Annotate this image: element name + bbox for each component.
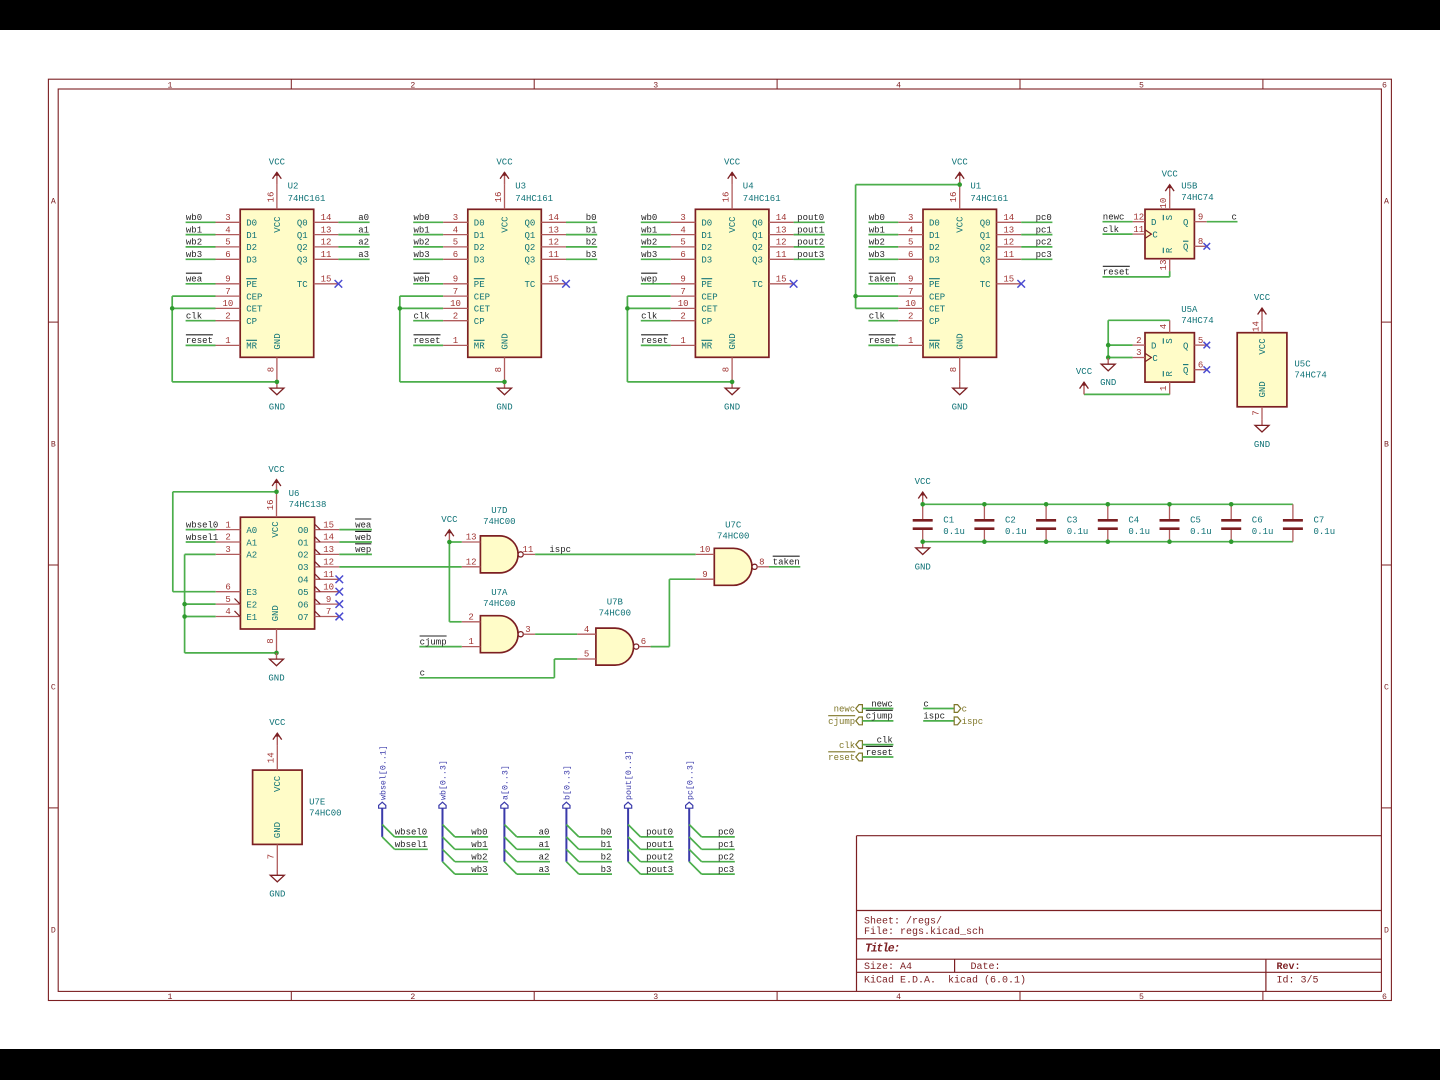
junction (U6 E2): [182, 602, 187, 607]
svg-text:5: 5: [225, 238, 230, 248]
svg-text:C6: C6: [1252, 516, 1263, 526]
svg-text:wb1: wb1: [414, 225, 430, 235]
svg-text:D2: D2: [474, 243, 485, 253]
svg-text:2: 2: [225, 311, 230, 321]
svg-text:2: 2: [468, 612, 473, 622]
svg-text:1: 1: [225, 336, 230, 346]
wire CEP/CET tie to GND (U3): [400, 296, 505, 382]
no-connect U6 O7: [336, 613, 344, 621]
svg-text:4: 4: [584, 625, 589, 635]
wire wb1 to U4 D1: [641, 234, 671, 236]
svg-text:74HC74: 74HC74: [1181, 316, 1213, 326]
wire CEP/CET tie to GND (U4): [627, 296, 732, 382]
svg-text:B: B: [1384, 441, 1389, 450]
net label reset (U3): [414, 335, 441, 346]
svg-text:a1: a1: [539, 840, 550, 850]
svg-text:pout3: pout3: [646, 865, 673, 875]
net label wb1: [414, 225, 430, 235]
svg-text:VCC: VCC: [728, 216, 738, 233]
wire clk to U5B C: [1103, 233, 1133, 235]
wire newc (hier): [862, 708, 893, 710]
svg-text:wbsel1: wbsel1: [395, 840, 427, 850]
net label a3 (port): [539, 865, 550, 875]
svg-text:O2: O2: [298, 551, 309, 561]
svg-text:Rev:: Rev:: [1277, 962, 1301, 973]
net label wbsel0 (port): [395, 828, 427, 838]
wire CEP/CET tie to VCC (U1): [856, 185, 960, 309]
hierarchical label reset: [828, 752, 862, 763]
svg-text:Q0: Q0: [297, 219, 308, 229]
bus entry b0: [566, 825, 578, 837]
power VCC (U7E): [269, 718, 286, 745]
svg-text:7: 7: [326, 607, 331, 617]
svg-text:a0: a0: [358, 213, 369, 223]
svg-text:VCC: VCC: [269, 718, 286, 728]
svg-text:E1: E1: [246, 613, 257, 623]
net label wb0 (port): [471, 828, 487, 838]
net label b1 (port): [601, 840, 612, 850]
svg-text:0.1u: 0.1u: [943, 527, 965, 537]
kicad version text: [864, 974, 1026, 986]
wire GND rail (cap bank): [923, 541, 1293, 543]
svg-text:2: 2: [680, 311, 685, 321]
wire U1 Q1 to pc1: [1021, 234, 1052, 236]
svg-text:6: 6: [225, 582, 230, 592]
svg-text:0.1u: 0.1u: [1067, 527, 1089, 537]
svg-text:wb0: wb0: [869, 213, 885, 223]
hierarchical bus label wbsel[0..1]: [378, 745, 388, 808]
svg-text:VCC: VCC: [1258, 338, 1268, 355]
svg-text:GND: GND: [271, 605, 281, 621]
svg-text:a0: a0: [539, 828, 550, 838]
svg-text:5: 5: [908, 238, 913, 248]
hierarchical label c (right): [954, 705, 967, 715]
wire clk (hier): [862, 744, 893, 746]
net label pc3: [1036, 250, 1052, 260]
svg-text:D0: D0: [246, 219, 257, 229]
svg-text:14: 14: [321, 213, 332, 223]
sheet name text: [864, 915, 942, 927]
svg-text:D1: D1: [929, 231, 940, 241]
svg-text:8: 8: [494, 367, 504, 372]
svg-text:12: 12: [1133, 212, 1144, 222]
junction (U5A C): [1106, 355, 1111, 360]
wire U2 Q1 to a1: [338, 234, 369, 236]
bus entry pc3: [689, 862, 701, 874]
bus a[0..3]: [503, 808, 505, 862]
net label taken: [869, 273, 896, 284]
wire wb0 to U1 D0: [868, 221, 898, 223]
svg-text:C2: C2: [1005, 516, 1016, 526]
svg-text:CP: CP: [246, 317, 257, 327]
junction (U6 GND): [274, 651, 279, 656]
svg-text:Id: 3/5: Id: 3/5: [1277, 974, 1319, 986]
svg-text:Date:: Date:: [971, 962, 1001, 973]
svg-text:PE: PE: [929, 280, 940, 290]
svg-text:pout2: pout2: [797, 238, 824, 248]
wire wb1 stub: [455, 848, 488, 850]
wire U3 Q2 to b2: [566, 246, 597, 248]
svg-text:8: 8: [266, 638, 276, 643]
net label c (hier right): [923, 699, 928, 709]
svg-text:pout1: pout1: [797, 225, 824, 235]
svg-text:5: 5: [1139, 82, 1144, 91]
power VCC (U6): [268, 465, 285, 492]
svg-text:wep: wep: [355, 545, 371, 555]
wire reset (hier): [862, 756, 893, 758]
net label wb2: [414, 238, 430, 248]
svg-text:GND: GND: [956, 333, 966, 349]
net label wbsel1: [186, 533, 218, 543]
net label reset (U5B): [1103, 266, 1130, 277]
no-connect U5A Q-bar: [1204, 366, 1211, 373]
svg-text:C: C: [1384, 683, 1389, 692]
svg-text:pc[0..3]: pc[0..3]: [685, 760, 695, 800]
svg-text:11: 11: [321, 250, 332, 260]
svg-text:clk: clk: [869, 312, 885, 322]
svg-text:pout0: pout0: [797, 213, 824, 223]
svg-text:6: 6: [1382, 993, 1387, 1002]
hierarchical label cjump: [828, 716, 862, 727]
svg-text:GND: GND: [724, 403, 740, 413]
title block: [857, 836, 1382, 992]
ground (U5A): [1100, 358, 1116, 388]
svg-text:wb0: wb0: [471, 828, 487, 838]
svg-text:b3: b3: [586, 250, 597, 260]
svg-text:VCC: VCC: [268, 465, 285, 475]
wire VCC to U7D pin13 and U7A pin2: [449, 542, 461, 622]
svg-text:4: 4: [908, 225, 913, 235]
svg-text:pout3: pout3: [797, 250, 824, 260]
svg-text:E2: E2: [246, 600, 257, 610]
wire U7B out to U7C pin9: [651, 579, 696, 646]
bus entry pout3: [628, 862, 640, 874]
svg-text:0.1u: 0.1u: [1190, 527, 1212, 537]
bus entry b1: [566, 837, 578, 849]
wire wb1 to U3 D1: [413, 234, 443, 236]
bus entry wb0: [443, 825, 455, 837]
svg-text:a2: a2: [539, 853, 550, 863]
wire reset to U1 MR: [868, 344, 898, 346]
svg-text:C1: C1: [943, 516, 954, 526]
power VCC (U5C): [1254, 293, 1271, 320]
ground (U4): [724, 382, 740, 413]
net label wb3 (port): [471, 865, 487, 875]
svg-text:ispc: ispc: [962, 717, 984, 727]
net label wbsel0: [186, 520, 218, 530]
svg-text:5: 5: [1139, 993, 1144, 1002]
wire U6 O3 to U7D input 12: [339, 566, 462, 568]
svg-text:9: 9: [702, 570, 707, 580]
net label reset (U4): [641, 335, 668, 346]
net label a2 (port): [539, 853, 550, 863]
svg-text:S: S: [1165, 215, 1175, 220]
svg-text:A: A: [1384, 198, 1389, 207]
wire U1 Q3 to pc3: [1021, 258, 1052, 260]
net label a0 (port): [539, 828, 550, 838]
svg-text:11: 11: [522, 545, 533, 555]
svg-text:D0: D0: [929, 219, 940, 229]
svg-text:7: 7: [908, 287, 913, 297]
net label wb0: [414, 213, 430, 223]
svg-text:c: c: [420, 669, 425, 679]
svg-text:4: 4: [453, 225, 458, 235]
wire U7C out to taken: [769, 566, 800, 568]
junction (U1 CEP): [853, 294, 858, 299]
svg-text:6: 6: [1382, 82, 1387, 91]
bus entry a3: [504, 862, 516, 874]
svg-text:wb2: wb2: [471, 853, 487, 863]
svg-text:4: 4: [896, 82, 901, 91]
svg-text:wb1: wb1: [641, 225, 657, 235]
svg-text:GND: GND: [1254, 440, 1270, 450]
svg-text:74HC74: 74HC74: [1294, 371, 1326, 381]
net label pout0 (port): [646, 828, 673, 838]
svg-text:3: 3: [525, 625, 530, 635]
svg-text:0.1u: 0.1u: [1314, 527, 1336, 537]
svg-text:14: 14: [267, 752, 277, 763]
net label b2 (port): [601, 853, 612, 863]
net label pc0: [1036, 213, 1052, 223]
svg-text:3: 3: [653, 82, 658, 91]
net label pout3: [797, 250, 824, 260]
svg-text:R: R: [1165, 247, 1175, 253]
svg-text:VCC: VCC: [956, 216, 966, 233]
svg-text:16: 16: [722, 192, 732, 203]
svg-text:9: 9: [453, 275, 458, 285]
svg-text:8: 8: [722, 367, 732, 372]
svg-text:D2: D2: [929, 243, 940, 253]
wire wep to U4 PE: [641, 283, 671, 285]
no-connect U1 TC: [1017, 280, 1025, 288]
svg-text:wb1: wb1: [471, 840, 487, 850]
wire CEP/CET tie to GND (U2): [172, 296, 277, 382]
svg-text:clk: clk: [641, 312, 657, 322]
svg-text:Q2: Q2: [297, 243, 308, 253]
net label wep (U6): [355, 544, 371, 555]
bus pout[0..3]: [627, 808, 629, 862]
junction (C5 VCC): [1167, 502, 1172, 507]
net label wb1: [641, 225, 657, 235]
svg-text:12: 12: [466, 557, 477, 567]
net label pc2 (port): [718, 853, 734, 863]
title text: [865, 943, 899, 956]
svg-text:reset: reset: [641, 336, 668, 346]
svg-text:9: 9: [680, 275, 685, 285]
no-connect U2 TC: [335, 280, 343, 288]
svg-text:wb3: wb3: [471, 865, 487, 875]
svg-text:13: 13: [321, 225, 332, 235]
wire U5B Q to c: [1207, 221, 1238, 223]
ground (U6): [268, 653, 284, 684]
svg-text:U7B: U7B: [607, 598, 624, 608]
net label clk (U2): [186, 312, 202, 322]
junction (U5A D): [1106, 343, 1111, 348]
svg-text:11: 11: [1003, 250, 1014, 260]
wire b2 stub: [579, 861, 612, 863]
date text: [971, 962, 1001, 973]
net label pout1: [797, 225, 824, 235]
svg-text:c: c: [1231, 213, 1236, 223]
sheet id text: [1277, 974, 1319, 986]
svg-text:wb0: wb0: [641, 213, 657, 223]
svg-text:D: D: [1151, 341, 1156, 351]
svg-text:Q0: Q0: [980, 219, 991, 229]
svg-text:1: 1: [680, 336, 685, 346]
svg-text:VCC: VCC: [1162, 170, 1179, 180]
wire U5A S/D/C tie to GND: [1108, 320, 1170, 358]
svg-text:O3: O3: [298, 563, 309, 573]
svg-text:wea: wea: [186, 275, 203, 285]
net label wb1: [186, 225, 202, 235]
svg-text:GND: GND: [728, 333, 738, 349]
IC U1 74HC161: [898, 181, 1021, 382]
IC U2 74HC161: [216, 181, 339, 382]
wire wb2 stub: [455, 861, 488, 863]
svg-text:a[0..3]: a[0..3]: [501, 765, 511, 800]
svg-text:a2: a2: [358, 238, 369, 248]
svg-text:5: 5: [584, 650, 589, 660]
svg-text:PE: PE: [246, 280, 257, 290]
junction (C4 VCC): [1106, 502, 1111, 507]
wire U1 Q2 to pc2: [1021, 246, 1052, 248]
svg-text:wb2: wb2: [869, 238, 885, 248]
svg-text:wbsel0: wbsel0: [395, 828, 427, 838]
svg-text:4: 4: [1159, 324, 1169, 329]
svg-text:Title:: Title:: [865, 943, 899, 956]
svg-text:pout2: pout2: [646, 853, 673, 863]
svg-text:15: 15: [1003, 275, 1014, 285]
net label a2: [358, 238, 369, 248]
svg-text:reset: reset: [866, 748, 893, 758]
svg-text:PE: PE: [701, 280, 712, 290]
svg-text:12: 12: [776, 238, 787, 248]
svg-text:8: 8: [266, 367, 276, 372]
svg-text:GND: GND: [268, 674, 284, 684]
svg-text:5: 5: [225, 595, 230, 605]
bus entry wbsel1: [382, 837, 394, 849]
wire pout0 stub: [641, 836, 674, 838]
net label clk (U4): [641, 312, 657, 322]
svg-text:wea: wea: [355, 520, 372, 530]
svg-text:pc1: pc1: [1036, 225, 1052, 235]
svg-text:9: 9: [326, 595, 331, 605]
svg-text:reset: reset: [414, 336, 441, 346]
svg-text:O5: O5: [298, 588, 309, 598]
svg-text:b1: b1: [586, 225, 597, 235]
rev text: [1277, 962, 1301, 973]
svg-text:6: 6: [908, 250, 913, 260]
svg-text:13: 13: [466, 533, 477, 543]
net label pc1: [1036, 225, 1052, 235]
svg-text:TC: TC: [980, 280, 991, 290]
capacitor C5 0.1u: [1160, 504, 1212, 541]
net label pc0 (port): [718, 828, 734, 838]
svg-text:GND: GND: [1100, 378, 1116, 388]
svg-text:74HC00: 74HC00: [717, 532, 749, 542]
net label pout1 (port): [646, 840, 673, 850]
svg-text:3: 3: [1136, 348, 1141, 358]
wire a1 stub: [517, 848, 550, 850]
wire b1 stub: [579, 848, 612, 850]
svg-text:14: 14: [548, 213, 559, 223]
svg-text:4: 4: [896, 993, 901, 1002]
net label pc1 (port): [718, 840, 734, 850]
svg-text:CEP: CEP: [474, 292, 490, 302]
svg-text:5: 5: [680, 238, 685, 248]
svg-text:14: 14: [776, 213, 787, 223]
svg-text:1: 1: [225, 520, 230, 530]
NAND gate U7A 74HC00: [462, 588, 535, 653]
wire pc3 stub: [702, 873, 735, 875]
svg-text:reset: reset: [869, 336, 896, 346]
IC U7E 74HC00 power unit: [253, 745, 342, 869]
svg-text:12: 12: [548, 238, 559, 248]
junction (C3 VCC): [1044, 502, 1049, 507]
NAND gate U7D 74HC00: [462, 506, 535, 573]
bus entry pc0: [689, 825, 701, 837]
svg-text:cjump: cjump: [420, 637, 447, 647]
junction (U3 GND): [502, 380, 507, 385]
svg-text:6: 6: [453, 250, 458, 260]
svg-text:MR: MR: [701, 342, 712, 352]
power VCC (U2): [269, 157, 286, 184]
junction (C3 GND): [1044, 539, 1049, 544]
wire wb3 to U3 D3: [413, 258, 443, 260]
net label b3: [586, 250, 597, 260]
IC U5B 74HC74: [1133, 182, 1214, 271]
svg-text:GND: GND: [273, 333, 283, 349]
wire U4 Q0 to pout0: [794, 221, 825, 223]
bus entry wb2: [443, 849, 455, 861]
svg-text:8: 8: [759, 557, 764, 567]
svg-text:6: 6: [641, 637, 646, 647]
svg-text:wb1: wb1: [869, 225, 885, 235]
net label web: [414, 273, 430, 284]
capacitor C4 0.1u: [1098, 504, 1150, 541]
svg-text:clk: clk: [839, 741, 855, 751]
wire wea to U2 PE: [186, 283, 216, 285]
svg-text:12: 12: [323, 558, 334, 568]
no-connect U6 O5: [336, 588, 344, 596]
svg-text:clk: clk: [1103, 225, 1119, 235]
hierarchical label ispc (right): [954, 717, 983, 727]
svg-text:VCC: VCC: [724, 157, 741, 167]
svg-text:11: 11: [1133, 225, 1144, 235]
bus entry wbsel0: [382, 825, 394, 837]
svg-text:GND: GND: [496, 403, 512, 413]
wire pout3 stub: [641, 873, 674, 875]
net label pc3 (port): [718, 865, 734, 875]
wire U2 Q3 to a3: [338, 258, 369, 260]
svg-text:12: 12: [1003, 238, 1014, 248]
svg-text:Q2: Q2: [524, 243, 535, 253]
bus entry wb1: [443, 837, 455, 849]
svg-text:U7A: U7A: [491, 588, 508, 598]
svg-text:CET: CET: [246, 305, 263, 315]
svg-text:A1: A1: [246, 538, 257, 548]
net label a0: [358, 213, 369, 223]
net label wb2: [869, 238, 885, 248]
ground (U2): [269, 382, 285, 413]
net label pout0: [797, 213, 824, 223]
bus entry a1: [504, 837, 516, 849]
capacitor C6 0.1u: [1221, 504, 1273, 541]
wire wb2 to U2 D2: [186, 246, 216, 248]
svg-text:a3: a3: [539, 865, 550, 875]
svg-text:reset: reset: [186, 336, 213, 346]
net label pout2: [797, 238, 824, 248]
